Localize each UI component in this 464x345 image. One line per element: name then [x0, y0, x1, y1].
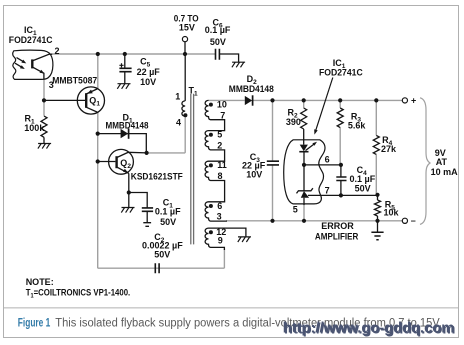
output - terminal	[402, 218, 407, 223]
svg-text:50V: 50V	[355, 183, 371, 193]
phototransistor collector to pin 2	[32, 54, 52, 61]
arrow from label to LED	[316, 78, 333, 131]
svg-text:6: 6	[325, 155, 330, 165]
svg-text:10V: 10V	[140, 77, 156, 87]
diode D1	[98, 134, 147, 153]
wire bottom output rail	[226, 220, 402, 222]
opto light arrowhead 1	[21, 60, 26, 64]
transformer T1 primary winding pin1 stub	[184, 54, 186, 101]
svg-text:MMBT5087: MMBT5087	[52, 75, 97, 85]
svg-text:KSD1621STF: KSD1621STF	[131, 171, 183, 181]
wire up to winding 12-9 bottom	[223, 249, 225, 268]
wire T1 pin10 to D2	[209, 99, 245, 101]
wire Q1 collector down	[97, 112, 99, 133]
resistor R5	[375, 200, 381, 216]
ground Q2 emitter	[121, 208, 134, 213]
svg-text:100k: 100k	[24, 123, 45, 133]
optocoupler IC1 phototransistor body	[13, 50, 53, 79]
transistor Q1 circle	[77, 87, 104, 114]
wire R5 to ground	[377, 221, 379, 232]
svg-text:ERROR: ERROR	[321, 221, 354, 231]
svg-text:5: 5	[217, 130, 222, 140]
wire R3 stub and lower	[339, 100, 341, 164]
junction dots	[96, 52, 100, 56]
svg-text:MMBD4148: MMBD4148	[229, 84, 274, 94]
wire C3 branch	[272, 100, 274, 220]
wire T1 pin4 to Q2 collector node	[147, 116, 186, 153]
capacitor C5	[124, 54, 126, 84]
wire R2 stub	[303, 100, 305, 108]
svg-text:7: 7	[325, 186, 330, 196]
T1 bias winding 12-9	[205, 228, 224, 250]
gray wires	[44, 54, 402, 268]
svg-text:AMPLIFIER: AMPLIFIER	[315, 232, 359, 242]
ground R1	[38, 144, 51, 149]
Q1 emitter arrowhead (PNP)	[87, 90, 93, 94]
svg-text:AT: AT	[436, 157, 448, 167]
svg-text:15V: 15V	[179, 23, 195, 33]
wire IC1b pin6	[304, 164, 341, 166]
svg-text:50V: 50V	[154, 249, 170, 259]
svg-text:Figure 1: Figure 1	[18, 317, 51, 329]
svg-text:50V: 50V	[160, 217, 176, 227]
T1 secondary winding 5-2	[205, 131, 225, 162]
wire R1 to ground	[43, 137, 45, 143]
diode D2 bar	[252, 95, 254, 105]
svg-text:2: 2	[217, 141, 222, 151]
svg-text:5: 5	[293, 205, 298, 215]
light arrow 1	[17, 58, 25, 63]
opto light arrowhead 2	[20, 65, 25, 69]
input terminal circle	[182, 37, 187, 42]
phototransistor bar	[31, 59, 33, 68]
phototransistor emitter to pin 3	[32, 67, 44, 80]
ground R5	[371, 232, 383, 240]
wire node to reference	[303, 165, 305, 191]
wire top rail	[52, 53, 215, 55]
ground winding 12	[238, 237, 251, 242]
wire Q2 emitter to ground	[128, 193, 130, 208]
diode D2 triangle	[245, 96, 252, 105]
ground C6	[232, 62, 245, 67]
wire R4 stub and lower	[375, 100, 377, 194]
wire C6 to ground	[220, 54, 239, 62]
Q2 emitter arrowhead (NPN)	[123, 169, 128, 173]
input terminal stub	[184, 42, 186, 54]
resistor R4	[373, 135, 379, 154]
wire R2 to LED	[303, 129, 305, 145]
svg-text:NOTE:: NOTE:	[26, 277, 54, 287]
capacitor C2	[155, 263, 159, 273]
svg-text:4: 4	[176, 117, 181, 127]
svg-text:7: 7	[220, 110, 225, 120]
reference triangle IC1b	[301, 191, 309, 198]
wire top output rail	[253, 99, 403, 101]
opto emitter arrowhead	[40, 70, 45, 74]
output brace	[420, 98, 430, 225]
T1 primary coil	[182, 101, 185, 116]
svg-text:9: 9	[218, 236, 223, 246]
capacitor C3	[267, 161, 279, 165]
svg-text:10: 10	[217, 99, 227, 109]
Q1 emitter line	[86, 89, 98, 94]
T1 core	[191, 94, 194, 245]
op-amp/reference IC1b package outline	[284, 140, 325, 204]
svg-text:+: +	[411, 96, 416, 106]
svg-text:2: 2	[55, 46, 60, 56]
resistor R3	[337, 108, 343, 128]
Q2 emitter line	[117, 167, 129, 174]
svg-text:0.1 µF: 0.1 µF	[205, 25, 231, 35]
wire Q1 base	[44, 99, 85, 101]
svg-text:MMBD4148: MMBD4148	[106, 121, 149, 131]
svg-text:22 µF: 22 µF	[137, 67, 161, 77]
IC1b LED cathode bar	[299, 151, 308, 153]
svg-text:–: –	[411, 215, 416, 225]
T1 secondary winding 10-7	[205, 100, 225, 130]
black circuit elements	[13, 37, 408, 274]
svg-text:5.6k: 5.6k	[348, 121, 367, 131]
svg-text:390: 390	[286, 117, 301, 127]
svg-text:10k: 10k	[384, 207, 400, 217]
svg-text:10V: 10V	[246, 169, 262, 179]
LED triangle IC1b	[300, 145, 308, 152]
svg-text:8: 8	[218, 171, 223, 181]
svg-text:http://www.go-gddq.com: http://www.go-gddq.com	[284, 321, 456, 338]
light arrow 2	[15, 63, 23, 68]
output + terminal	[402, 98, 407, 103]
capacitor C1	[129, 193, 147, 223]
svg-text:FOD2741C: FOD2741C	[9, 35, 53, 45]
T1 primary polarity dot	[183, 113, 187, 117]
wire winding 12 to ground	[209, 228, 246, 237]
LED emission arrow	[306, 144, 315, 150]
capacitor C4	[340, 165, 342, 196]
reference cathode bent bar	[297, 188, 313, 193]
svg-text:FOD2741C: FOD2741C	[319, 67, 363, 77]
LED emission arrowhead	[312, 142, 317, 146]
ground C5	[117, 84, 130, 89]
wire Q2 base	[98, 161, 116, 163]
T1 secondary winding 6-3	[205, 202, 227, 221]
wire Q1 emitter to rail	[97, 54, 99, 89]
wire IC1b pin5 to bottom rail	[303, 205, 305, 221]
Q2 collector line	[117, 152, 147, 157]
svg-text:27k: 27k	[381, 144, 397, 154]
ground C1	[143, 223, 151, 227]
T1 secondary winding 11-8	[205, 161, 225, 202]
wire opto pin3 down to R1	[43, 79, 45, 115]
wire bottom left rail	[98, 267, 225, 269]
wire IC1b pin7	[308, 194, 378, 196]
wire left vertical D1 node to bottom	[97, 134, 99, 269]
wire reference to pin5	[303, 198, 305, 205]
wire LED to node	[303, 152, 305, 165]
label arrowhead	[314, 129, 318, 134]
svg-text:10 mA: 10 mA	[431, 167, 459, 177]
diode D1 triangle	[121, 129, 129, 138]
Q1 base bar	[85, 93, 87, 108]
Q2 base bar	[115, 156, 117, 168]
transistor Q2 circle	[109, 149, 134, 174]
svg-text:0.1 µF: 0.1 µF	[155, 207, 181, 217]
svg-text:1: 1	[175, 91, 180, 101]
wire Q2 emitter down	[128, 173, 130, 192]
capacitor C6	[216, 49, 220, 60]
T1 winding dots	[209, 103, 213, 107]
resistor R1	[41, 116, 47, 137]
filled black symbols	[20, 52, 380, 234]
resistor R2	[301, 108, 307, 129]
svg-text:50V: 50V	[210, 37, 226, 47]
svg-text:6: 6	[217, 201, 222, 211]
svg-text:3: 3	[217, 212, 222, 222]
Q1 collector line	[86, 107, 98, 112]
svg-text:11: 11	[217, 160, 227, 170]
